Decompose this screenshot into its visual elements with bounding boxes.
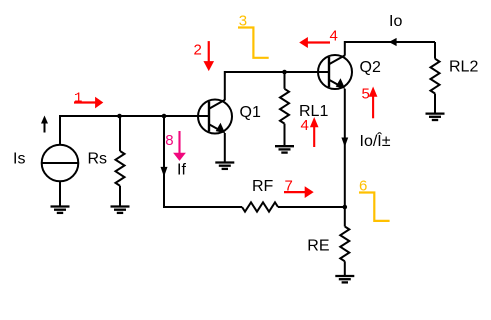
- ground (below RL1): [275, 146, 294, 152]
- marker 2 (red digit): [194, 41, 202, 58]
- svg-text:Is: Is: [13, 150, 25, 167]
- node: junction dot feedback tap: [162, 114, 167, 119]
- label Rs: [88, 150, 108, 167]
- svg-text:Q1: Q1: [240, 104, 261, 121]
- resistor RL1: [280, 72, 289, 146]
- label Io/alpha (mojibake text): [360, 131, 391, 150]
- arrow 5 (red, up): [369, 87, 378, 119]
- svg-text:RF: RF: [252, 178, 274, 195]
- svg-text:2: 2: [194, 41, 202, 58]
- wire: Q2 emitter down to RF/RE node: [344, 89, 346, 207]
- transistor Q1: [198, 100, 232, 134]
- ground (below RE): [335, 276, 354, 282]
- ground (below Q1 emitter): [215, 163, 234, 169]
- svg-text:Q2: Q2: [360, 59, 381, 76]
- arrow 4 (red, left, top): [299, 37, 330, 48]
- arrow 8 (magenta, down): [173, 131, 186, 161]
- wire: Q2 collector up and over to RL2: [345, 42, 435, 56]
- label Q2: [360, 59, 381, 76]
- label Io: [389, 13, 402, 30]
- wire: main input net from Is to Q1 base: [60, 116, 209, 145]
- marker 1 (red digit): [74, 90, 82, 106]
- Io current direction arrow (black, left, on top wire): [389, 38, 397, 46]
- marker 3 (orange digit): [239, 12, 247, 29]
- resistor RL2: [431, 42, 440, 114]
- ground (below RL2): [426, 114, 445, 120]
- svg-text:Rs: Rs: [88, 150, 108, 167]
- label RL2: [449, 59, 478, 76]
- Is current direction arrow (black, up): [41, 116, 48, 133]
- marker 3 step symbol (orange): [238, 28, 269, 58]
- label RL1: [299, 103, 328, 120]
- svg-text:RE: RE: [307, 238, 329, 255]
- resistor RE: [340, 207, 349, 276]
- If current direction arrow (black, down, on wire): [161, 167, 168, 177]
- marker 6 step symbol (orange): [359, 193, 390, 221]
- svg-text:4: 4: [330, 27, 338, 44]
- transistor Q2: [318, 55, 352, 89]
- svg-text:5: 5: [362, 85, 370, 102]
- marker 5 (red digit): [362, 85, 370, 102]
- svg-text:1: 1: [74, 90, 82, 106]
- arrow 2 (red, down): [203, 41, 214, 71]
- arrow 7 (red, right): [284, 186, 314, 198]
- resistor Rs: [116, 116, 125, 207]
- svg-text:RL2: RL2: [449, 59, 478, 76]
- arrow 1 (red, right): [74, 97, 103, 109]
- wire: Q1 collector net to Q2 base: [225, 72, 329, 100]
- current source Is symbol: [42, 145, 79, 207]
- node: junction dot Rs tap: [117, 114, 122, 119]
- label RF: [252, 178, 274, 195]
- svg-text:Io: Io: [389, 13, 402, 30]
- node: junction dot RL1 tap: [282, 70, 287, 75]
- marker 8 (magenta digit): [165, 132, 173, 149]
- ground (below Rs): [111, 207, 130, 213]
- label Q1: [240, 104, 261, 121]
- node: junction dot RF/RE/emitter: [343, 205, 348, 210]
- marker 6 (orange digit): [359, 177, 367, 194]
- svg-text:4: 4: [301, 117, 309, 134]
- resistor RF: [242, 202, 345, 211]
- svg-text:If: If: [177, 162, 186, 179]
- wire: feedback branch down to RF: [164, 116, 242, 207]
- Io/alpha current direction arrow (black, down, on wire): [341, 138, 348, 148]
- ground (below Is): [51, 207, 70, 213]
- label If: [177, 162, 186, 179]
- marker 7 (red digit): [285, 177, 293, 194]
- wire: Q1 emitter to ground: [224, 133, 226, 163]
- svg-text:8: 8: [165, 132, 173, 149]
- marker 4 (red digit, at RL1): [301, 117, 309, 134]
- label RE: [307, 238, 329, 255]
- label Is: [13, 150, 25, 167]
- svg-text:Io/Î±: Io/Î±: [360, 131, 391, 150]
- arrow 4 (red, up, at RL1): [310, 117, 319, 147]
- marker 4 (red digit, top): [330, 27, 338, 44]
